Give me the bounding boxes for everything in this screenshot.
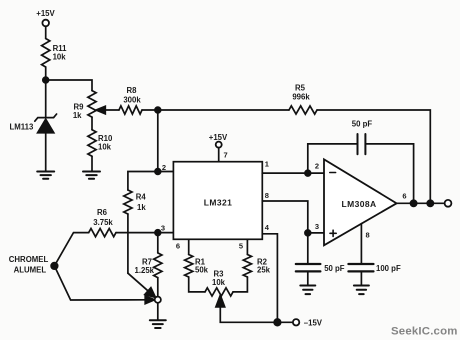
resistor R1 <box>185 255 193 278</box>
wire R7 to reference node <box>157 278 159 297</box>
node E junction -15V rail <box>274 319 281 326</box>
wire +15V terminal to R11 <box>45 26 47 38</box>
svg-text:LM321: LM321 <box>204 198 232 208</box>
svg-text:6: 6 <box>402 192 406 201</box>
plus sign LM308A <box>330 230 336 236</box>
resistor R5 <box>289 106 317 114</box>
wire LM113 anode to ground <box>45 133 47 172</box>
wire pin 3 node to R6 <box>116 232 158 234</box>
wire pin 1 LM321 to LM308A minus input <box>262 172 308 174</box>
svg-text:5: 5 <box>239 241 243 250</box>
ground below C2 <box>300 286 315 295</box>
svg-text:LM113: LM113 <box>10 123 34 132</box>
wire pin 7 <box>218 148 220 162</box>
capacitor C1 50 pF feedback wire left <box>308 144 357 173</box>
wire R3 wiper to -15V junction <box>220 307 277 322</box>
wire pin 8 LM321 <box>262 201 308 233</box>
svg-text:CHROMEL: CHROMEL <box>9 255 49 264</box>
wire node B to R5 <box>158 109 289 111</box>
node I junction output/R5 <box>427 200 433 206</box>
svg-text:100 pF: 100 pF <box>376 264 401 273</box>
svg-text:50 pF: 50 pF <box>352 119 373 128</box>
resistor R4 <box>124 190 132 214</box>
wiper arrow of R9 <box>96 106 105 114</box>
node H junction output/C1 <box>411 200 417 206</box>
wire R4 diagonal to reference node <box>128 273 149 291</box>
svg-text:8: 8 <box>366 231 370 240</box>
wire R9 wiper to R8 <box>105 109 120 111</box>
capacitor C3 100 pF plates <box>348 264 373 271</box>
terminal output <box>445 200 452 207</box>
wire pin 6 LM321 to R1 <box>188 239 190 254</box>
capacitor C1 50 pF plates <box>358 134 366 154</box>
node D junction pin 3 of LM321 <box>155 230 161 236</box>
ground below C3 <box>354 286 369 295</box>
wire reference node to ground <box>157 303 159 320</box>
ground below LM113 <box>37 172 54 179</box>
thermocouple node CHROMEL/ALUMEL <box>51 263 58 270</box>
wire node B down to pin 2 node <box>157 110 159 172</box>
wire plus input into LM308A <box>308 232 324 234</box>
wire R6 to thermocouple node <box>54 233 88 266</box>
wire R8 to node B <box>142 109 158 111</box>
wire pin 8 LM308A to C3 <box>360 224 362 263</box>
svg-text:ALUMEL: ALUMEL <box>14 266 47 275</box>
node A junction R11/LM113 <box>43 77 49 83</box>
svg-text:996k: 996k <box>292 93 310 102</box>
svg-text:300k: 300k <box>123 95 141 104</box>
minus sign LM308A <box>330 172 336 174</box>
potentiometer R9 <box>88 91 96 118</box>
resistor R6 <box>89 229 116 237</box>
wire R10 to ground <box>91 156 93 171</box>
wire pin 5 LM321 to R2 <box>246 239 248 254</box>
wire junction to -15V terminal <box>277 321 293 323</box>
svg-text:1: 1 <box>265 160 269 169</box>
wire thermocouple lower to reference node <box>54 266 146 300</box>
resistor R11 <box>42 39 50 68</box>
wire R9 to R10 <box>91 117 93 130</box>
svg-text:10k: 10k <box>98 143 112 152</box>
resistor R8 <box>119 106 142 114</box>
terminal +15V (top left) <box>42 20 49 27</box>
wire node A to LM113 cathode <box>45 80 47 118</box>
ground below reference node <box>150 320 166 328</box>
svg-text:+15V: +15V <box>209 133 228 142</box>
potentiometer R3 <box>205 288 233 296</box>
wire pin 2 node into LM321 <box>158 171 174 173</box>
node G junction LM308A plus input <box>305 230 311 236</box>
svg-text:4: 4 <box>265 223 270 232</box>
reference node open circle <box>155 297 161 303</box>
svg-text:SeekIC.com: SeekIC.com <box>391 326 458 338</box>
svg-text:R5: R5 <box>295 84 306 93</box>
wire pin 4 LM321 to -15V rail <box>262 234 277 322</box>
node C junction pin 2 of LM321 <box>155 169 161 175</box>
wire LM308A output <box>397 202 445 204</box>
svg-text:2: 2 <box>315 162 319 171</box>
terminal -15V <box>293 319 299 325</box>
wire R1 bottom to R3 <box>189 277 205 292</box>
resistor R7 from pin 3 node <box>157 233 159 253</box>
wire R4 down past crossing <box>127 214 129 273</box>
resistor R10 <box>88 130 96 157</box>
svg-text:R10: R10 <box>98 134 113 143</box>
wire R3 to R2 bottom <box>233 277 247 292</box>
svg-text:3.75k: 3.75k <box>93 218 113 227</box>
wire pin 3 node into LM321 <box>158 232 174 234</box>
svg-text:R6: R6 <box>97 208 108 217</box>
capacitor C2 50 pF wire from plus node <box>307 233 309 263</box>
svg-text:R3: R3 <box>214 269 225 278</box>
wire minus input into LM308A <box>308 172 324 174</box>
wire R5 to output node <box>317 110 430 203</box>
svg-text:–15V: –15V <box>304 319 323 328</box>
arrow into reference node from thermocouple <box>145 296 154 304</box>
capacitor C2 wire to ground <box>307 273 309 286</box>
capacitor C1 wire right to output <box>367 144 414 203</box>
svg-text:10k: 10k <box>212 278 226 287</box>
resistor R2 <box>243 255 251 278</box>
svg-text:50 pF: 50 pF <box>324 264 345 273</box>
svg-text:8: 8 <box>265 191 269 200</box>
wire node A to R9 top <box>46 80 92 91</box>
wiper arrow of R3 <box>216 295 225 307</box>
op-amp U2 LM308A body <box>324 159 397 245</box>
svg-text:6: 6 <box>176 241 180 250</box>
op-amp U1 LM321 body <box>173 162 262 240</box>
svg-text:2: 2 <box>162 163 166 172</box>
node B junction R8/R5/pin2 <box>155 107 161 113</box>
svg-text:3: 3 <box>315 222 319 231</box>
wire pin 2 node to R4 <box>128 172 158 191</box>
arrow into reference node from R4 <box>145 288 156 298</box>
svg-text:50k: 50k <box>195 265 209 274</box>
svg-text:R4: R4 <box>136 192 147 201</box>
svg-text:R8: R8 <box>127 86 138 95</box>
svg-text:25k: 25k <box>257 265 271 274</box>
svg-text:1.25k: 1.25k <box>134 266 154 275</box>
svg-text:10k: 10k <box>53 53 67 62</box>
svg-text:1k: 1k <box>73 111 82 120</box>
svg-text:LM308A: LM308A <box>342 199 377 209</box>
terminal +15V (LM321 pin 7) <box>216 142 222 148</box>
svg-text:3: 3 <box>161 223 165 232</box>
zener diode LM113 cathode bar <box>35 114 57 121</box>
capacitor C3 wire to ground <box>360 273 362 286</box>
node F junction LM308A minus input <box>305 170 311 176</box>
ground below R10 <box>83 172 100 179</box>
svg-text:1k: 1k <box>137 203 146 212</box>
zener diode LM113 body <box>38 119 54 133</box>
capacitor C2 50 pF plates <box>296 264 321 271</box>
svg-text:7: 7 <box>224 151 228 160</box>
svg-text:+15V: +15V <box>36 9 55 18</box>
wire R11 to node A <box>45 67 47 80</box>
